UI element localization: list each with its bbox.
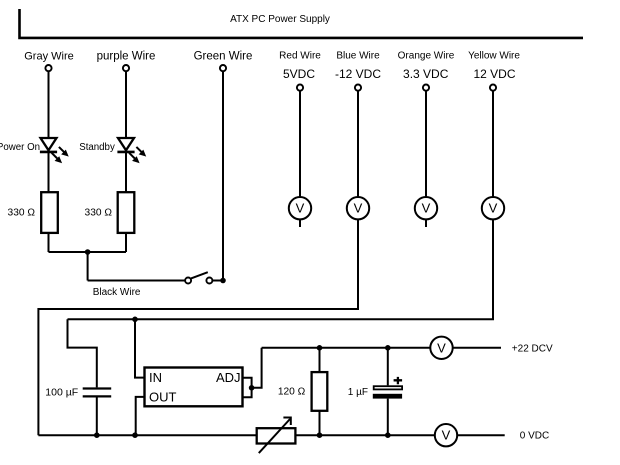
junction: LED bus <box>85 249 91 255</box>
terminal: red wire <box>297 85 303 91</box>
LED D2 Standby <box>118 138 134 150</box>
wire: +22V rail <box>262 347 431 349</box>
wire: bus joining R1 and R2 bottoms <box>49 251 127 253</box>
wire: switch to green wire <box>213 280 224 282</box>
wire: +12V rail jog to C1 <box>68 319 97 387</box>
svg-text:V: V <box>422 201 431 216</box>
svg-text:1 µF: 1 µF <box>348 387 368 398</box>
potentiometer VR1 arrow shaft <box>259 419 290 453</box>
wire: bus down to switch <box>87 252 89 281</box>
wire: stub below orange meter <box>425 219 427 227</box>
potentiometer VR1 arrowhead <box>283 418 290 426</box>
ATX power supply bracket outline <box>20 9 584 38</box>
terminal: yellow wire <box>490 85 496 91</box>
terminal: purple wire <box>123 65 129 71</box>
svg-text:100 µF: 100 µF <box>45 386 78 398</box>
svg-text:V: V <box>489 201 498 216</box>
wire: black wire to switch <box>88 280 185 282</box>
resistor R2 330 ohm <box>118 192 135 233</box>
terminal: blue wire <box>355 85 361 91</box>
potentiometer VR1 body <box>257 428 296 443</box>
junction: ADJ node <box>249 385 255 391</box>
resistor R3 120 ohm <box>312 372 328 411</box>
wire: V5 to +22 DCV label <box>453 347 501 349</box>
label: C2 polarity plus <box>394 377 403 384</box>
wire: red terminal to meter <box>299 91 301 197</box>
wire: green terminal down to switch <box>222 72 224 281</box>
wire: LED2 to R2 <box>125 153 127 192</box>
svg-text:Orange Wire: Orange Wire <box>398 51 455 62</box>
svg-text:Standby: Standby <box>79 142 115 153</box>
svg-text:V: V <box>296 201 305 216</box>
wire: stub below red meter <box>299 219 301 227</box>
wire: ADJ pin bracket <box>243 378 252 398</box>
LED D2 light arrow 2 <box>129 153 135 159</box>
wire: LED1 to R1 <box>48 153 50 192</box>
switch SW1 lever <box>191 272 208 278</box>
capacitor C2 1uF negative plate <box>373 394 402 399</box>
capacitor C2 1uF positive plate <box>374 386 402 389</box>
wire: ADJ node to +22V rail <box>252 348 262 388</box>
svg-text:ADJ: ADJ <box>216 370 241 385</box>
voltmeter V4 (yellow 12VDC) <box>482 197 504 219</box>
switch SW1 left contact <box>185 278 191 284</box>
LED D1 light arrow 2 <box>52 153 58 159</box>
voltage regulator U1 box <box>145 368 243 407</box>
svg-text:+22 DCV: +22 DCV <box>512 343 553 354</box>
wire: 0V rail left segment <box>38 434 256 436</box>
svg-text:Power On: Power On <box>0 142 40 153</box>
wire: purple terminal to LED2 <box>125 72 127 138</box>
svg-text:IN: IN <box>149 370 162 385</box>
junction: R3 top <box>317 345 323 351</box>
wire: 0V rail right segment <box>295 434 435 436</box>
junction: +12V rail to regulator IN <box>132 317 138 323</box>
capacitor C1 100uF plate bottom <box>83 395 112 397</box>
wire: V6 to 0 VDC label <box>457 434 505 436</box>
wire: R3 to 0V rail <box>319 411 321 435</box>
LED D1 light arrow 1 <box>59 147 65 153</box>
junction: R3 bottom <box>317 432 323 438</box>
wire: C1 to 0V rail <box>96 398 98 436</box>
svg-text:-12 VDC: -12 VDC <box>335 67 381 81</box>
terminal: green wire <box>220 65 226 71</box>
voltmeter V5 (+22 DCV) <box>430 337 452 359</box>
svg-text:Yellow Wire: Yellow Wire <box>468 51 520 62</box>
wire: +12V rail down to IN pin <box>135 319 145 377</box>
switch SW1 right contact <box>206 278 212 284</box>
wire: +22V rail to R3 <box>319 348 321 372</box>
svg-text:12 VDC: 12 VDC <box>473 67 515 81</box>
svg-text:Blue Wire: Blue Wire <box>336 51 380 62</box>
wire: OUT pin down to 0V rail <box>136 397 145 435</box>
svg-text:ATX PC Power Supply: ATX PC Power Supply <box>230 14 330 25</box>
voltmeter V6 (0 VDC) <box>435 424 457 446</box>
svg-text:3.3 VDC: 3.3 VDC <box>403 67 449 81</box>
svg-text:V: V <box>437 340 446 355</box>
junction: C2 top <box>385 345 391 351</box>
terminal: gray wire <box>45 65 51 71</box>
wire: +22V rail to C2 <box>387 348 389 386</box>
voltmeter V1 (red 5VDC) <box>289 197 311 219</box>
svg-text:Red Wire: Red Wire <box>279 51 321 62</box>
wire: blue terminal to meter <box>357 91 359 197</box>
wire: blue meter down to -12V rail <box>38 219 358 435</box>
svg-text:purple Wire: purple Wire <box>97 51 156 63</box>
wire: gray terminal to LED1 <box>48 72 50 138</box>
LED D1 Power On <box>41 138 57 150</box>
svg-text:330 Ω: 330 Ω <box>8 207 36 218</box>
junction: OUT at 0V rail <box>132 432 138 438</box>
svg-text:0 VDC: 0 VDC <box>520 430 549 441</box>
svg-text:120 Ω: 120 Ω <box>278 387 306 398</box>
capacitor C1 100uF plate top <box>83 387 112 389</box>
svg-text:V: V <box>442 428 451 443</box>
wire: yellow meter down to +12V rail <box>68 219 494 319</box>
junction: C1 bottom <box>94 432 100 438</box>
resistor R1 330 ohm <box>41 192 58 233</box>
junction: green wire at switch <box>220 278 226 284</box>
svg-text:Gray Wire: Gray Wire <box>24 51 74 63</box>
svg-text:Green Wire: Green Wire <box>194 51 253 63</box>
voltmeter V2 (blue -12VDC) <box>347 197 369 219</box>
svg-text:330 Ω: 330 Ω <box>85 207 113 218</box>
terminal: orange wire <box>423 85 429 91</box>
wire: yellow terminal to meter <box>492 91 494 197</box>
LED D2 light arrow 1 <box>136 147 142 153</box>
junction: C2 bottom <box>385 432 391 438</box>
wire: R2 to black wire bus <box>125 233 127 252</box>
voltmeter V3 (orange 3.3VDC) <box>415 197 437 219</box>
svg-text:V: V <box>354 201 363 216</box>
wire: orange terminal to meter <box>425 91 427 197</box>
wire: C2 to 0V rail <box>387 399 389 436</box>
wire: R1 to black wire bus <box>48 233 50 252</box>
svg-text:5VDC: 5VDC <box>283 67 315 81</box>
svg-text:OUT: OUT <box>149 389 177 404</box>
svg-text:Black Wire: Black Wire <box>93 287 141 298</box>
